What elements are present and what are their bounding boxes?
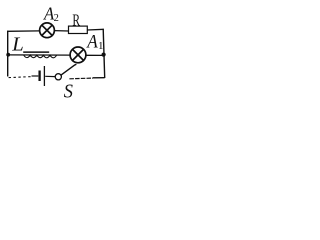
wire lamp A1 to right vertical — [86, 54, 104, 56]
wire bottom-left dashed — [9, 77, 32, 78]
switch S contact — [55, 74, 61, 80]
wire to battery — [32, 75, 39, 77]
lamp A2 — [40, 23, 55, 38]
resistor R — [69, 26, 88, 33]
battery negative plate (short thick) — [38, 71, 40, 82]
node junction right — [102, 53, 106, 57]
wire resistor R to top-right corner — [87, 28, 104, 31]
wire bottom-right corner — [93, 77, 105, 79]
svg-text:A: A — [85, 33, 98, 53]
node junction left — [6, 53, 10, 57]
wire lamp A2 to resistor R — [54, 30, 68, 32]
svg-text:S: S — [64, 81, 73, 103]
wire top-left horizontal — [7, 30, 40, 32]
wire middle branch — [8, 54, 70, 56]
switch S lever — [61, 65, 76, 75]
coil L winding — [24, 55, 57, 58]
wire battery to switch — [45, 75, 55, 77]
svg-text:1: 1 — [98, 40, 104, 52]
battery positive plate (long thin) — [43, 66, 45, 86]
coil L core bar — [23, 51, 49, 53]
wire right vertical — [103, 29, 105, 78]
lamp A1 — [70, 47, 86, 63]
wire left vertical — [7, 31, 9, 77]
wire bottom-right dashed — [69, 77, 93, 80]
svg-text:R: R — [72, 11, 80, 30]
svg-text:L: L — [11, 33, 24, 55]
svg-text:2: 2 — [54, 13, 59, 24]
